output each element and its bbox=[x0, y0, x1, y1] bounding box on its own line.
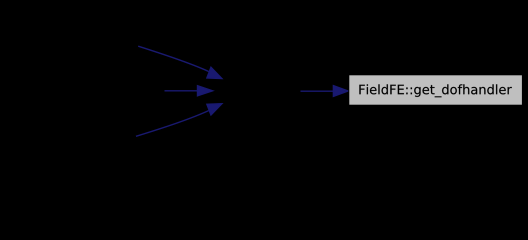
arrowhead caller1 -> intermediate bbox=[207, 67, 223, 79]
arrowhead caller3 -> intermediate bbox=[207, 104, 223, 116]
node caller3 (hidden bottom-left) bbox=[5, 125, 133, 155]
node caller2 (hidden middle-left) bbox=[5, 76, 160, 106]
node FieldFE::get_dofhandler (current, gray) bbox=[349, 75, 523, 105]
node intermediate (hidden center) bbox=[217, 76, 297, 106]
arrowhead caller2 -> intermediate bbox=[197, 86, 213, 97]
edge caller3 -> intermediate (wire) bbox=[136, 111, 209, 137]
edge intermediate -> FieldFE::get_dofhandler (wire) bbox=[301, 90, 335, 92]
node caller1 (hidden top-left) bbox=[5, 30, 135, 60]
edge caller1 -> intermediate (wire) bbox=[138, 46, 209, 71]
edge caller2 -> intermediate (wire) bbox=[165, 90, 200, 92]
arrowhead intermediate -> FieldFE::get_dofhandler bbox=[333, 85, 348, 96]
